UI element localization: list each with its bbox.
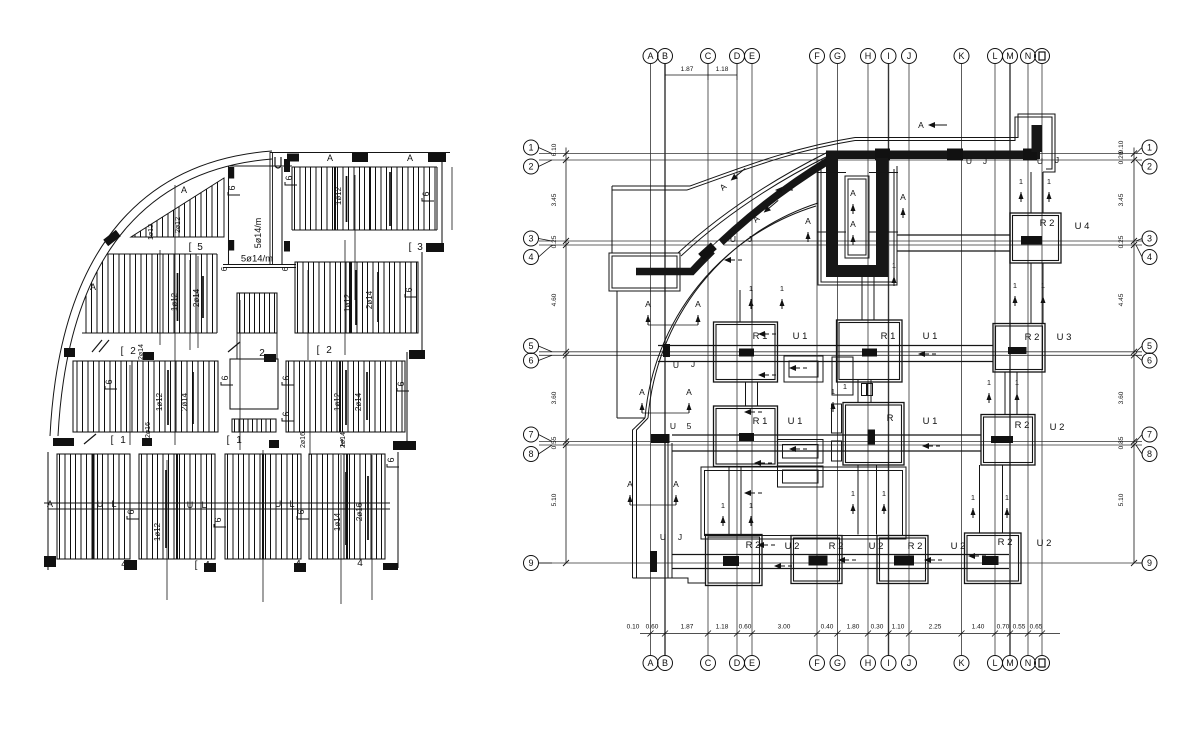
- svg-text:0.70: 0.70: [997, 624, 1010, 631]
- svg-text:M: M: [1006, 51, 1014, 61]
- svg-text:2ø12: 2ø12: [175, 217, 182, 233]
- panel P1 top-right outline: [292, 166, 437, 168]
- dashed arrows annotations: [724, 257, 731, 263]
- svg-text:U 3: U 3: [1057, 332, 1072, 343]
- beam pairs row 5/6: [658, 345, 993, 347]
- bottom bracket 6 c: [296, 509, 309, 519]
- svg-text:6: 6: [528, 356, 533, 366]
- top dark band wall: [826, 151, 1040, 160]
- svg-text:2ø14: 2ø14: [340, 432, 347, 448]
- svg-text:R 2: R 2: [998, 537, 1013, 548]
- svg-text:J: J: [907, 51, 912, 61]
- svg-text:1: 1: [882, 489, 886, 498]
- arc dark band: [636, 159, 831, 272]
- svg-text:R 1: R 1: [881, 331, 896, 342]
- A marker top: [918, 120, 947, 130]
- slash mid: [228, 342, 240, 352]
- svg-text:A: A: [647, 51, 653, 61]
- triangle panel under arc outline: [131, 178, 224, 237]
- svg-text:2: 2: [326, 345, 332, 356]
- svg-text:6: 6: [227, 185, 237, 190]
- row3 rebar seg: [167, 370, 169, 425]
- svg-text:A: A: [90, 282, 96, 292]
- svg-text:1ø12: 1ø12: [333, 392, 342, 411]
- svg-text:1ø12: 1ø12: [334, 186, 343, 205]
- svg-text:J: J: [907, 658, 912, 668]
- svg-text:C: C: [705, 658, 712, 668]
- svg-text:8: 8: [1147, 449, 1152, 459]
- left dim chain vertical: [565, 148, 567, 564]
- svg-text:2: 2: [528, 162, 533, 172]
- svg-text:6.10: 6.10: [551, 143, 558, 156]
- svg-text:0.25: 0.25: [551, 235, 558, 248]
- U mark top: [275, 157, 281, 168]
- stairwell inner rounded rect: [845, 176, 869, 258]
- dim line pair: [223, 264, 296, 266]
- svg-text:F: F: [814, 658, 820, 668]
- svg-text:A: A: [686, 387, 692, 397]
- svg-text:1: 1: [843, 382, 847, 391]
- svg-text:5ø14/m: 5ø14/m: [241, 254, 273, 265]
- chimney tab UL: [229, 167, 234, 179]
- left slab plan: inner arc boundary: [58, 159, 272, 436]
- svg-text:L: L: [289, 499, 294, 509]
- row3 bracket 6: [104, 379, 117, 389]
- top-right block right edge: [441, 152, 443, 252]
- chimney top line: [229, 165, 292, 167]
- dark vertical wall top-right: [1032, 125, 1043, 152]
- svg-text:A: A: [850, 219, 856, 229]
- bottom panel 2 outline: [139, 454, 215, 559]
- arc tilted break block: [698, 242, 717, 260]
- svg-text:1: 1: [851, 489, 855, 498]
- black column left line9: [650, 551, 657, 572]
- svg-text:2ø16: 2ø16: [145, 422, 152, 438]
- svg-text:H: H: [865, 658, 872, 668]
- footing R2 (row5/6 right): [993, 324, 1045, 373]
- svg-text:A: A: [47, 499, 53, 509]
- svg-text:5.10: 5.10: [551, 493, 558, 506]
- row3.5 slash: [84, 434, 96, 444]
- central big room outline: [701, 467, 906, 539]
- svg-text:U 2: U 2: [1037, 538, 1052, 549]
- svg-text:C: C: [705, 51, 712, 61]
- svg-text:2ø14: 2ø14: [192, 288, 201, 307]
- tri section line: [174, 185, 176, 445]
- row2 rebar seg 1: [177, 273, 179, 321]
- svg-text:2ø16: 2ø16: [355, 502, 364, 521]
- row3 middle strip hatch: [232, 419, 276, 432]
- svg-text:4: 4: [528, 252, 533, 262]
- bp rebar seg a: [165, 470, 167, 548]
- P1 bracket 6: [421, 191, 434, 201]
- beam pairs row 7/8: [672, 434, 981, 436]
- svg-text:5ø14/m: 5ø14/m: [253, 218, 263, 249]
- wall pairs between footing rows right chain: [1004, 372, 1006, 414]
- svg-text:9: 9: [1147, 558, 1152, 568]
- svg-text:D: D: [734, 658, 741, 668]
- grid bubbles right: [1142, 140, 1157, 155]
- grid bubbles top: [643, 49, 658, 64]
- bottom panel 1 hatch: [60, 454, 125, 559]
- long section lines upper: [239, 300, 241, 450]
- svg-text:J: J: [1055, 155, 1059, 165]
- column tab r25a: [143, 352, 154, 360]
- bottom panel 4 outline: [309, 454, 385, 559]
- svg-text:4.45: 4.45: [1118, 293, 1125, 306]
- bottom panel 4 hatch: [312, 454, 382, 559]
- footing R1 a (row5/6 left): [714, 322, 778, 382]
- right dim chain vertical: [1133, 148, 1135, 564]
- svg-text:1: 1: [749, 501, 753, 510]
- row3 right edge: [406, 352, 408, 441]
- bottom panel 1 outline: [57, 454, 130, 559]
- svg-text:L: L: [201, 500, 206, 510]
- triangle panel hatch: [135, 182, 218, 237]
- svg-text:U 2: U 2: [785, 541, 800, 552]
- footing R c (row7/8 mid): [843, 403, 904, 466]
- footing R2 (row7/8 right): [981, 415, 1035, 466]
- A markers on arc: [718, 165, 749, 193]
- svg-text:U 1: U 1: [923, 416, 938, 427]
- row3R rebar seg2: [366, 372, 368, 420]
- svg-text:A: A: [181, 185, 187, 195]
- svg-text:1ø12: 1ø12: [153, 522, 162, 541]
- svg-text:6: 6: [126, 509, 136, 514]
- svg-text:6: 6: [104, 379, 114, 384]
- svg-text:3.60: 3.60: [551, 391, 558, 404]
- svg-text:1.18: 1.18: [716, 66, 729, 73]
- row3 rebar seg2: [192, 372, 194, 424]
- long mid section line: [344, 240, 346, 355]
- row2 right edge: [421, 252, 423, 352]
- svg-text:5.10: 5.10: [1118, 493, 1125, 506]
- bp rebar seg c: [367, 476, 369, 540]
- P1 section line: [354, 175, 356, 300]
- svg-text:9.10: 9.10: [1118, 140, 1125, 153]
- svg-text:3: 3: [528, 234, 533, 244]
- footing R1 c (row7/8 left): [714, 406, 778, 467]
- row2R rebar seg2: [377, 272, 379, 322]
- svg-text:[: [: [195, 560, 198, 571]
- svg-text:6: 6: [284, 175, 294, 180]
- svg-text:6: 6: [396, 381, 406, 386]
- stair shaft dark walls: [826, 158, 838, 277]
- svg-text:4: 4: [1147, 252, 1152, 262]
- chimney tab LL: [229, 240, 234, 251]
- small slots center: [832, 404, 842, 433]
- column tab r35c big right: [393, 441, 416, 450]
- svg-text:J: J: [678, 532, 682, 542]
- bottom tabs: [44, 556, 56, 567]
- svg-text:R 2: R 2: [1025, 332, 1040, 343]
- column tab r35b: [269, 440, 279, 448]
- svg-text:A: A: [639, 387, 645, 397]
- svg-text:I: I: [887, 51, 890, 61]
- chimney bracket left: [227, 185, 240, 195]
- left slab plan: outer arc boundary: [50, 151, 272, 436]
- svg-text:1: 1: [780, 284, 784, 293]
- svg-text:K: K: [958, 51, 964, 61]
- svg-text:6: 6: [1147, 356, 1152, 366]
- svg-text:1.87: 1.87: [681, 66, 694, 73]
- svg-text:0.55: 0.55: [551, 436, 558, 449]
- svg-text:A: A: [673, 479, 679, 489]
- svg-text:G: G: [834, 658, 841, 668]
- svg-text:3.60: 3.60: [1118, 391, 1125, 404]
- svg-text:R 1: R 1: [753, 331, 768, 342]
- svg-text:L: L: [111, 499, 116, 509]
- bottom block bracket 6 right: [386, 457, 399, 467]
- top dimension line B-D: [665, 74, 737, 76]
- P1 rebar seg: [346, 176, 348, 222]
- shaft section ticks: [817, 172, 846, 174]
- bottom panel 2 hatch: [142, 454, 212, 559]
- long sec x198: [197, 256, 199, 348]
- svg-text:1: 1: [1147, 143, 1152, 153]
- svg-text:1: 1: [1047, 177, 1051, 186]
- svg-text:3: 3: [417, 242, 423, 253]
- svg-text:L: L: [992, 51, 997, 61]
- svg-text:U 4: U 4: [1075, 221, 1090, 232]
- svg-text:1.40: 1.40: [972, 624, 985, 631]
- svg-text:A: A: [918, 120, 924, 130]
- svg-text:0.10: 0.10: [627, 624, 640, 631]
- svg-text:1ø12: 1ø12: [148, 224, 155, 240]
- row2 left panel outline: [82, 254, 217, 333]
- small footing under R1a: [784, 356, 823, 382]
- svg-text:6: 6: [386, 457, 396, 462]
- tight arc pair hugging band: [678, 153, 827, 254]
- svg-text:1: 1: [236, 435, 242, 446]
- svg-text:B: B: [662, 51, 668, 61]
- svg-text:K: K: [958, 658, 964, 668]
- outer boundary top-right: [855, 114, 1055, 172]
- svg-text:1.80: 1.80: [847, 624, 860, 631]
- svg-text:R 2: R 2: [829, 541, 844, 552]
- svg-text:J: J: [691, 359, 695, 369]
- svg-text:8: 8: [528, 449, 533, 459]
- svg-text:7: 7: [528, 430, 533, 440]
- svg-text:L: L: [992, 658, 997, 668]
- bottom panel 3 outline: [225, 454, 301, 559]
- chimney bracket right: [284, 175, 297, 185]
- row2 right panel outline: [295, 262, 418, 333]
- svg-text:F: F: [814, 51, 820, 61]
- row2 right hatch: [298, 262, 417, 333]
- svg-text:5: 5: [687, 421, 692, 431]
- column tab r25b: [264, 354, 276, 362]
- black column on arc line5: [663, 344, 670, 357]
- P1 rebar seg2: [389, 172, 391, 226]
- row2 left panel hatch: [86, 254, 213, 333]
- long sec x452 right: [451, 167, 453, 230]
- bottom dim ticks: [648, 631, 654, 637]
- svg-text:7: 7: [1147, 430, 1152, 440]
- row2R rebar seg: [355, 270, 357, 325]
- svg-text:U 1: U 1: [923, 331, 938, 342]
- beams above R1a R1b verticals: [739, 290, 741, 322]
- svg-text:2: 2: [1147, 162, 1152, 172]
- svg-text:1ø12: 1ø12: [343, 293, 352, 312]
- footing R2 U4 (row3/4): [1010, 213, 1061, 263]
- svg-text:5: 5: [197, 242, 203, 253]
- svg-text:6: 6: [421, 191, 431, 196]
- outer boundary arc pair: [690, 138, 855, 187]
- svg-text:6: 6: [213, 517, 223, 522]
- row2 middle small panel: [237, 293, 277, 333]
- row2.5 slashes //: [92, 340, 102, 352]
- svg-text:6: 6: [220, 375, 230, 380]
- svg-text:1ø12: 1ø12: [155, 392, 164, 411]
- long left section: [129, 365, 131, 445]
- svg-text:6: 6: [220, 266, 229, 271]
- svg-text:A: A: [407, 153, 413, 163]
- svg-text:1: 1: [1005, 493, 1009, 502]
- opening bracket left: [220, 375, 233, 385]
- svg-text:U 1: U 1: [788, 416, 803, 427]
- svg-text:G: G: [834, 51, 841, 61]
- svg-text:U: U: [187, 500, 194, 510]
- bp rebar seg b: [345, 472, 347, 545]
- svg-text:R 2: R 2: [1040, 218, 1055, 229]
- svg-text:A: A: [645, 299, 651, 309]
- svg-text:1.87: 1.87: [681, 624, 694, 631]
- svg-text:1: 1: [1013, 281, 1017, 290]
- row3 right panel: [286, 361, 405, 432]
- inner thin arc big: [648, 203, 818, 418]
- svg-text:0.60: 0.60: [646, 624, 659, 631]
- svg-text:[: [: [317, 345, 320, 356]
- svg-text:3.45: 3.45: [551, 193, 558, 206]
- svg-text:3.00: 3.00: [778, 624, 791, 631]
- black column left line7/8: [651, 434, 670, 443]
- column tab top2: [352, 153, 368, 162]
- svg-text:U: U: [670, 421, 676, 431]
- chimney right wall: [281, 167, 283, 265]
- svg-text:R 2: R 2: [1015, 420, 1030, 431]
- svg-text:0.60: 0.60: [739, 624, 752, 631]
- A U L line pair: [44, 502, 390, 504]
- mid room connector lines: [236, 333, 238, 359]
- long sec x160: [159, 250, 161, 345]
- svg-text:U: U: [730, 234, 736, 244]
- panel P1 hatch: [295, 167, 435, 230]
- svg-text:6: 6: [281, 266, 290, 271]
- svg-text:2ø14: 2ø14: [365, 290, 374, 309]
- small footings pair mid: [778, 440, 824, 464]
- svg-text:R: R: [887, 413, 894, 424]
- svg-text:0.30: 0.30: [871, 624, 884, 631]
- svg-text:1: 1: [831, 387, 835, 396]
- svg-text:0.25: 0.25: [1118, 235, 1125, 248]
- svg-text:U 2: U 2: [1050, 422, 1065, 433]
- svg-text:0.20: 0.20: [1118, 151, 1125, 164]
- grid bubbles bottom: [643, 656, 658, 671]
- column tab r25c: [409, 350, 425, 359]
- beam pairs row 9: [672, 554, 1009, 556]
- arc column tab: [103, 230, 121, 246]
- svg-text:U: U: [97, 499, 104, 509]
- svg-text:A: A: [647, 658, 653, 668]
- top edge line: [270, 152, 450, 154]
- arc white break: [710, 240, 726, 255]
- svg-text:9: 9: [528, 558, 533, 568]
- bottom-left step outline: [633, 578, 706, 583]
- svg-text:U: U: [660, 532, 666, 542]
- svg-text:A: A: [327, 153, 333, 163]
- chimney tab LR: [284, 241, 290, 252]
- svg-text:0.55: 0.55: [1013, 624, 1026, 631]
- svg-text:5: 5: [528, 341, 533, 351]
- svg-text:A: A: [805, 216, 811, 226]
- svg-text:E: E: [749, 51, 755, 61]
- svg-text:[: [: [111, 435, 114, 446]
- svg-text:D: D: [734, 51, 741, 61]
- svg-text:1: 1: [971, 493, 975, 502]
- upper-left horizontal wall pair: [612, 185, 690, 187]
- svg-text:1.10: 1.10: [892, 624, 905, 631]
- column tab top1: [287, 154, 299, 162]
- left outer boundary lower: [616, 291, 618, 418]
- grid bubbles left: [524, 140, 539, 155]
- grid horizontal lines: [539, 153, 1142, 155]
- svg-text:1: 1: [120, 435, 126, 446]
- beam pairs row 3/4 from shaft to R2U4: [897, 234, 1010, 236]
- svg-text:U: U: [966, 156, 972, 166]
- L wall below R1b: [832, 357, 853, 395]
- svg-text:U 1: U 1: [793, 331, 808, 342]
- dark band column blocks: [875, 149, 890, 161]
- column tab r35a: [142, 438, 152, 446]
- svg-text:R 2: R 2: [908, 541, 923, 552]
- chimney left wall: [228, 166, 230, 265]
- svg-text:E: E: [749, 658, 755, 668]
- row2 rebar seg 2: [202, 276, 204, 318]
- svg-text:N: N: [1025, 658, 1032, 668]
- bottom bracket 6 a: [126, 509, 139, 519]
- vertical wall pair shaft-to-R2U4 down: [1030, 172, 1032, 213]
- svg-text:0.85: 0.85: [1118, 436, 1125, 449]
- row2 section line: [189, 260, 191, 350]
- grid vertical lines: [650, 64, 652, 655]
- svg-text:1: 1: [1019, 177, 1023, 186]
- left protrusion outline: [609, 253, 680, 291]
- svg-text:3.45: 3.45: [1118, 193, 1125, 206]
- svg-text:J: J: [983, 156, 987, 166]
- svg-text:2ø14: 2ø14: [180, 392, 189, 411]
- row3 left hatch: [77, 361, 215, 432]
- svg-text:[: [: [121, 346, 124, 357]
- svg-text:1: 1: [528, 143, 533, 153]
- long section lines bottom: [166, 460, 168, 600]
- row3 middle opening: [230, 359, 278, 409]
- row2R long section: [307, 270, 309, 360]
- leader line pair: [269, 152, 271, 264]
- chimney tab UR: [284, 159, 290, 172]
- svg-text:R 1: R 1: [753, 416, 768, 427]
- row3 left panel outline: [73, 361, 218, 432]
- bottom block outline: [47, 452, 49, 570]
- svg-text:4: 4: [357, 558, 363, 569]
- svg-text:B: B: [662, 658, 668, 668]
- vertical beams center: [745, 382, 747, 406]
- row2R bracket: [404, 287, 417, 297]
- svg-text:2ø14: 2ø14: [354, 392, 363, 411]
- svg-text:[: [: [227, 435, 230, 446]
- bottom panel 3 hatch: [228, 454, 298, 559]
- opening bracket bottom: [281, 411, 294, 421]
